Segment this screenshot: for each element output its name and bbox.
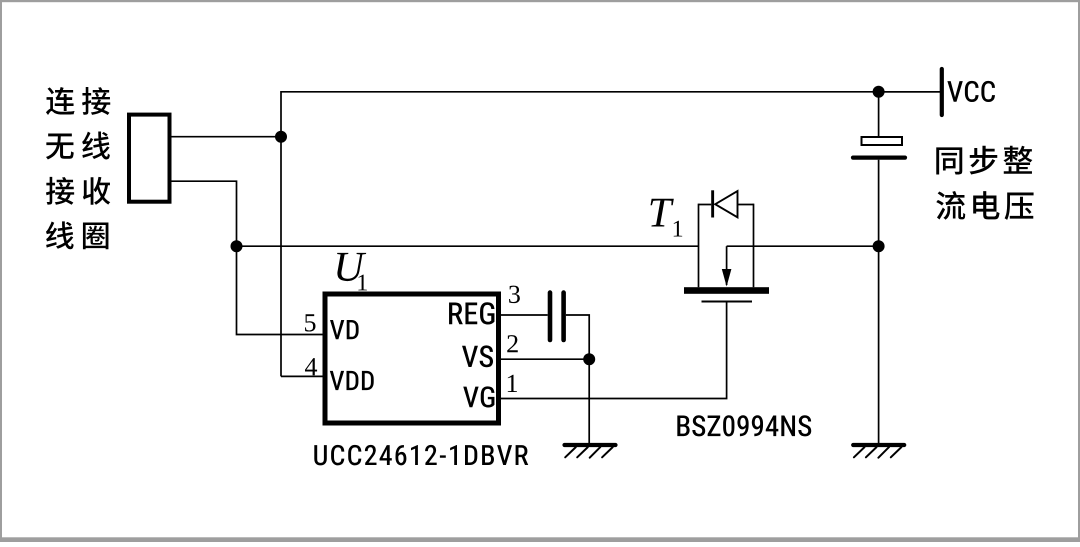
wire VS pin2 bbox=[501, 358, 590, 360]
coil L1 (wireless receiving coil) bbox=[129, 115, 170, 202]
label UCC24612-1DBVR bbox=[314, 445, 528, 466]
wire switch net right bbox=[727, 245, 879, 247]
node E junction dot bbox=[873, 240, 885, 252]
pin label VDD bbox=[330, 371, 374, 390]
VCC terminal bar bbox=[940, 69, 944, 115]
capacitor C2 polarized plates bbox=[853, 137, 905, 158]
wire VS node to ground bbox=[588, 359, 590, 443]
wire VDD pin4 bbox=[281, 375, 323, 377]
node C junction dot bbox=[583, 353, 595, 365]
op-amp U1 UCC24612 IC box bbox=[325, 294, 499, 423]
label U1 bbox=[337, 253, 367, 291]
wire VCC top net bbox=[281, 92, 940, 377]
wire VG pin1 to gate bbox=[501, 302, 727, 399]
transistor T1 source arrow bbox=[722, 246, 732, 286]
pin number 1 bbox=[508, 375, 517, 392]
wire C1 to VS node bbox=[566, 315, 589, 359]
pin label VG bbox=[463, 386, 494, 407]
transistor T1 channel bar bbox=[684, 287, 769, 294]
wire VCC stub bbox=[879, 91, 940, 93]
node B junction dot bbox=[231, 240, 243, 252]
ground GND2 bbox=[853, 445, 904, 458]
pin number 5 bbox=[305, 314, 316, 331]
wire C2 to ground bbox=[878, 160, 880, 444]
wire REG pin3 bbox=[501, 314, 548, 316]
label 连接无线接收线圈 (connect wireless receiving coil) bbox=[46, 87, 110, 249]
wire diode connections bbox=[699, 204, 754, 206]
pin label VS bbox=[462, 345, 493, 367]
pin number 3 bbox=[509, 286, 520, 304]
wire node D to capacitor C2 bbox=[878, 92, 880, 136]
pin number 4 bbox=[305, 358, 317, 375]
pin label REG bbox=[449, 302, 494, 324]
label 同步整流电压 (sync rectified voltage) bbox=[936, 146, 1033, 220]
capacitor C1 plates bbox=[550, 293, 564, 340]
transistor T1 gate line bbox=[702, 301, 753, 303]
transistor T1 terminals bbox=[699, 204, 754, 288]
pin number 2 bbox=[507, 335, 518, 352]
label T1 bbox=[651, 199, 683, 237]
ground GND1 bbox=[565, 445, 616, 458]
node D junction dot bbox=[873, 86, 885, 98]
node A junction dot bbox=[275, 131, 287, 143]
wire switch net left bbox=[237, 245, 699, 247]
wire coil bottom to VD bbox=[170, 181, 323, 334]
transistor T1 body diode bbox=[711, 190, 737, 217]
label VCC bbox=[947, 81, 995, 102]
pin label VD bbox=[330, 320, 359, 339]
label BSZ0994NS bbox=[677, 415, 811, 436]
wire coil top to node A bbox=[170, 136, 282, 138]
